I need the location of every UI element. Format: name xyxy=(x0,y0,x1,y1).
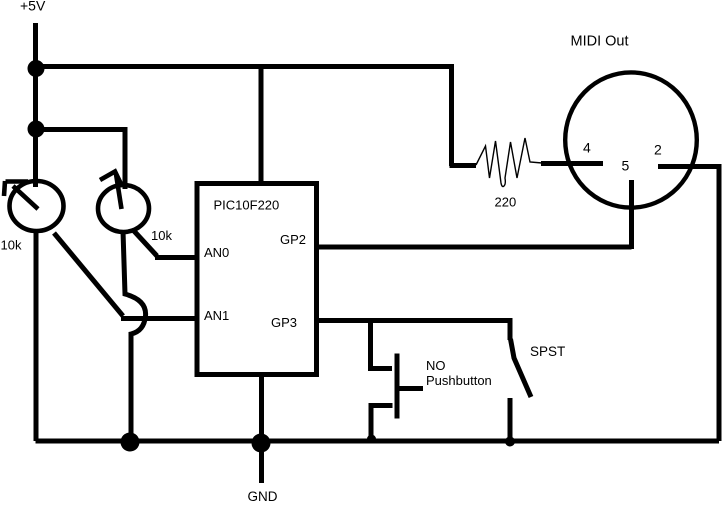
svg-text:Pushbutton: Pushbutton xyxy=(426,373,492,388)
switch S2 SPST arm (open) xyxy=(511,339,532,397)
wire: GP2 to MIDI pin 5 xyxy=(315,245,632,250)
wire: pushbutton upper contact stub xyxy=(368,366,392,371)
svg-text:MIDI Out: MIDI Out xyxy=(571,34,629,50)
wire: bottom ground rail xyxy=(36,439,720,444)
wire: RV2 wiper diagonal to AN0 xyxy=(134,231,157,256)
IC U1 PIC10F220 body xyxy=(197,184,317,375)
connector J1 MIDI DIN circle xyxy=(565,72,697,207)
wire: drop from top rail to resistor xyxy=(449,64,454,166)
svg-text:PIC10F220: PIC10F220 xyxy=(214,198,280,213)
wire: resistor right stub to MIDI pin 4 xyxy=(541,161,603,166)
wire: branch from +5V rail to pot RV2 top xyxy=(36,130,126,190)
potentiometer RV2 wiper arrow xyxy=(100,172,122,210)
wire: AN0 horizontal xyxy=(155,255,199,260)
switch S2 SPST bottom lead xyxy=(508,398,513,441)
svg-text:AN1: AN1 xyxy=(204,308,229,323)
wire: AN1 horizontal xyxy=(121,316,199,321)
wire: PIC bottom pin to ground xyxy=(259,374,264,483)
node: junction dot pot2 branch xyxy=(28,121,45,138)
svg-text:220: 220 xyxy=(495,195,517,210)
node: junction dot +5V rail / top rail xyxy=(28,60,45,77)
node: junction dot PIC ground pin / ground rail xyxy=(252,434,271,453)
wire: MIDI pin 2 lead right and down to ground rail xyxy=(658,167,719,442)
switch S2 SPST top lead xyxy=(508,318,513,340)
node: junction pushbutton / ground rail xyxy=(367,435,376,444)
node: junction dot RV2 lead / ground rail xyxy=(121,433,140,452)
svg-text:NO: NO xyxy=(426,358,446,373)
wire: RV1 wiper diagonal to AN1 xyxy=(54,233,123,316)
svg-text:+5V: +5V xyxy=(20,0,46,14)
svg-text:SPST: SPST xyxy=(530,344,565,359)
svg-text:4: 4 xyxy=(583,140,591,156)
node: junction SPST / ground rail xyxy=(505,437,515,447)
svg-text:10k: 10k xyxy=(1,238,22,253)
wire: GP3 horizontal to SPST xyxy=(315,318,510,323)
svg-text:10k: 10k xyxy=(151,228,172,243)
potentiometer RV2 circle xyxy=(98,185,149,232)
potentiometer RV1 wiper arrow xyxy=(4,181,38,209)
svg-text:2: 2 xyxy=(654,142,662,158)
wire: stub to resistor left xyxy=(450,163,477,168)
wire: PIC top supply pin xyxy=(259,66,264,184)
wire: +5V vertical rail (left) xyxy=(33,23,38,187)
svg-text:GND: GND xyxy=(248,489,278,502)
potentiometer RV1 circle xyxy=(10,181,64,231)
svg-text:GP3: GP3 xyxy=(271,315,297,330)
wire: pushbutton branch from GP3 xyxy=(368,318,373,369)
wire: pushbutton lower contact stub xyxy=(371,406,393,440)
resistor 220 (hand-drawn zigzag) xyxy=(476,138,542,187)
svg-text:AN0: AN0 xyxy=(204,245,229,260)
wire: top horizontal +5V rail xyxy=(36,64,453,69)
wire: RV2 bottom lead with hop over AN1 wire xyxy=(123,231,146,441)
switch S1 pushbutton stem xyxy=(399,386,423,391)
wire: RV1 bottom lead to ground rail xyxy=(34,231,39,441)
switch S1 pushbutton actuator bar xyxy=(395,354,400,419)
wire: MIDI pin 5 lead down xyxy=(629,180,634,249)
svg-text:GP2: GP2 xyxy=(280,232,306,247)
svg-text:5: 5 xyxy=(622,158,630,174)
